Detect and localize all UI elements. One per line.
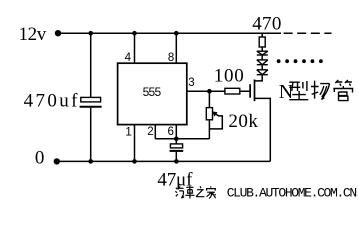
LED D2 bbox=[257, 60, 268, 65]
junction pin6 / C2 bbox=[174, 137, 179, 142]
watermark CJK char 车 bbox=[185, 186, 194, 199]
label CJK char 管 bbox=[333, 80, 353, 101]
junction bottom rail / C2 bbox=[174, 159, 179, 164]
svg-text:12v: 12v bbox=[19, 24, 47, 45]
resistor R1 470 bbox=[259, 37, 265, 47]
junction bottom rail / pin1 bbox=[132, 159, 137, 164]
svg-text:3: 3 bbox=[188, 77, 194, 89]
resistor R2 100 bbox=[225, 88, 240, 94]
svg-text:8: 8 bbox=[168, 52, 174, 64]
label CJK char 场 bbox=[311, 81, 330, 100]
wire pot bottom lead bbox=[208, 120, 210, 139]
junction top rail / C1 bbox=[88, 31, 93, 36]
LED D1 bbox=[257, 51, 268, 55]
svg-text:470uf: 470uf bbox=[24, 90, 78, 111]
svg-text:2: 2 bbox=[147, 126, 153, 138]
svg-text:1: 1 bbox=[125, 127, 131, 139]
wire D2-D3 bbox=[261, 65, 263, 70]
svg-text:4: 4 bbox=[125, 52, 132, 64]
wire pin 8 bbox=[175, 33, 177, 63]
wire pot top lead bbox=[208, 91, 210, 107]
svg-text:470: 470 bbox=[252, 13, 281, 34]
wire C2 top lead bbox=[175, 139, 177, 144]
wire pin 2 bbox=[154, 125, 156, 139]
svg-text:555: 555 bbox=[143, 85, 162, 99]
wire Q1 source lead bbox=[255, 98, 271, 161]
svg-text:CLUB.AUTOHOME.COM.CN: CLUB.AUTOHOME.COM.CN bbox=[227, 186, 358, 201]
wire R1 to LED chain bbox=[261, 47, 263, 51]
wire dashed rail continuation bbox=[284, 32, 332, 34]
wire D1-D2 bbox=[261, 55, 263, 60]
node 0V terminal dot bbox=[54, 158, 60, 164]
watermark CJK char 之 bbox=[196, 186, 204, 196]
junction bottom rail / C1 bbox=[88, 159, 93, 164]
junction top rail / pin8 bbox=[174, 31, 179, 36]
capacitor C1 470uf bbox=[80, 97, 102, 106]
wire pin 1 to ground rail bbox=[134, 125, 136, 162]
junction top rail / pin4 bbox=[132, 31, 137, 36]
transistor Q1 channel bar bbox=[254, 80, 256, 102]
wire top +12V rail bbox=[61, 32, 282, 34]
wire C2 bottom lead bbox=[175, 152, 177, 162]
LED D3 bbox=[257, 70, 268, 75]
transistor Q1 N-channel MOSFET gate bar bbox=[249, 84, 251, 98]
wire Q1 drain lead bbox=[255, 75, 263, 81]
wire pin 3 output bbox=[187, 90, 250, 92]
svg-text:20k: 20k bbox=[228, 111, 258, 132]
wire bottom 0V rail bbox=[59, 160, 270, 162]
wire pin 4 bbox=[134, 33, 136, 63]
ellipsis dots continuation of LED chain bbox=[277, 59, 323, 63]
wire C1 bottom lead bbox=[90, 108, 92, 162]
svg-text:0: 0 bbox=[35, 147, 45, 168]
wire pin 6 bbox=[175, 125, 177, 139]
op-amp U1 555 timer box bbox=[118, 63, 187, 124]
svg-text:6: 6 bbox=[168, 126, 174, 138]
wire R1 top stub bbox=[261, 33, 263, 37]
svg-text:100: 100 bbox=[214, 66, 244, 87]
label CJK char 型 bbox=[289, 81, 308, 100]
junction pin3 / pot bbox=[207, 89, 212, 94]
wire pin2-pin6-pot tie bbox=[155, 138, 209, 140]
node 12v terminal dot bbox=[55, 30, 61, 36]
watermark CJK char 家 bbox=[206, 186, 216, 198]
watermark CJK char 汽 bbox=[175, 187, 184, 198]
potentiometer wiper arrow and loop bbox=[209, 111, 222, 129]
wire C1 top lead bbox=[90, 33, 92, 97]
potentiometer RP1 20k body bbox=[206, 108, 212, 120]
capacitor C2 47uf bbox=[170, 144, 184, 151]
